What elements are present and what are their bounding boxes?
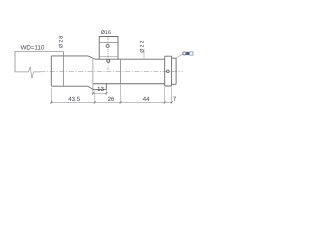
- dim extension cone end: [94, 91, 96, 104]
- dim extension flange left: [164, 87, 166, 103]
- dim extension flange right: [171, 87, 173, 103]
- node object-plane vertical line: [14, 51, 16, 72]
- lens front face: [50, 56, 52, 86]
- wire axis left segment with break zigzag: [15, 67, 41, 79]
- connector plug body: [186, 52, 189, 55]
- svg-text:Ø28: Ø28: [59, 35, 65, 48]
- dim extension 13 right: [105, 90, 107, 95]
- svg-text:43.5: 43.5: [68, 96, 80, 103]
- cone taper bottom: [88, 86, 93, 89]
- rear section: [172, 58, 177, 84]
- dim ticks 13: [92, 92, 107, 94]
- svg-text:Ø16: Ø16: [101, 30, 111, 36]
- joint line mid barrel: [120, 59, 122, 84]
- cone taper top: [88, 56, 95, 59]
- bottom block: [93, 84, 107, 90]
- dim ticks bottom chain: [50, 101, 172, 103]
- wire optical axis centerline: [41, 70, 183, 72]
- boss centerline: [107, 37, 109, 71]
- dim extension mid joint: [120, 85, 122, 104]
- lens bezel joint line: [63, 51, 65, 86]
- lens barrel D28 outline: [51, 56, 88, 86]
- boss housing on top: [99, 37, 118, 60]
- wire bottom dimension chain: [51, 101, 173, 103]
- barrel D22 outline: [93, 59, 165, 84]
- flange: [165, 56, 172, 86]
- svg-text:WD=110: WD=110: [21, 45, 45, 52]
- svg-text:13: 13: [97, 86, 104, 93]
- connector plug ring: [183, 52, 186, 55]
- screw circle lower: [107, 60, 110, 63]
- wire dim line 13: [93, 92, 106, 94]
- svg-text:26: 26: [108, 96, 115, 103]
- joint ring line: [92, 59, 94, 94]
- leader line D22: [143, 49, 145, 59]
- svg-text:44: 44: [143, 96, 150, 103]
- flange hole circle: [167, 70, 170, 73]
- dim extension front face: [50, 88, 52, 103]
- boss flange line: [99, 56, 118, 58]
- boss seam line: [99, 41, 118, 43]
- screw circle upper: [106, 44, 109, 47]
- connector plug shell: [190, 52, 193, 55]
- wire WD dimension line: [15, 50, 63, 52]
- leader line to connector: [176, 54, 182, 58]
- svg-text:Ø22: Ø22: [139, 39, 145, 52]
